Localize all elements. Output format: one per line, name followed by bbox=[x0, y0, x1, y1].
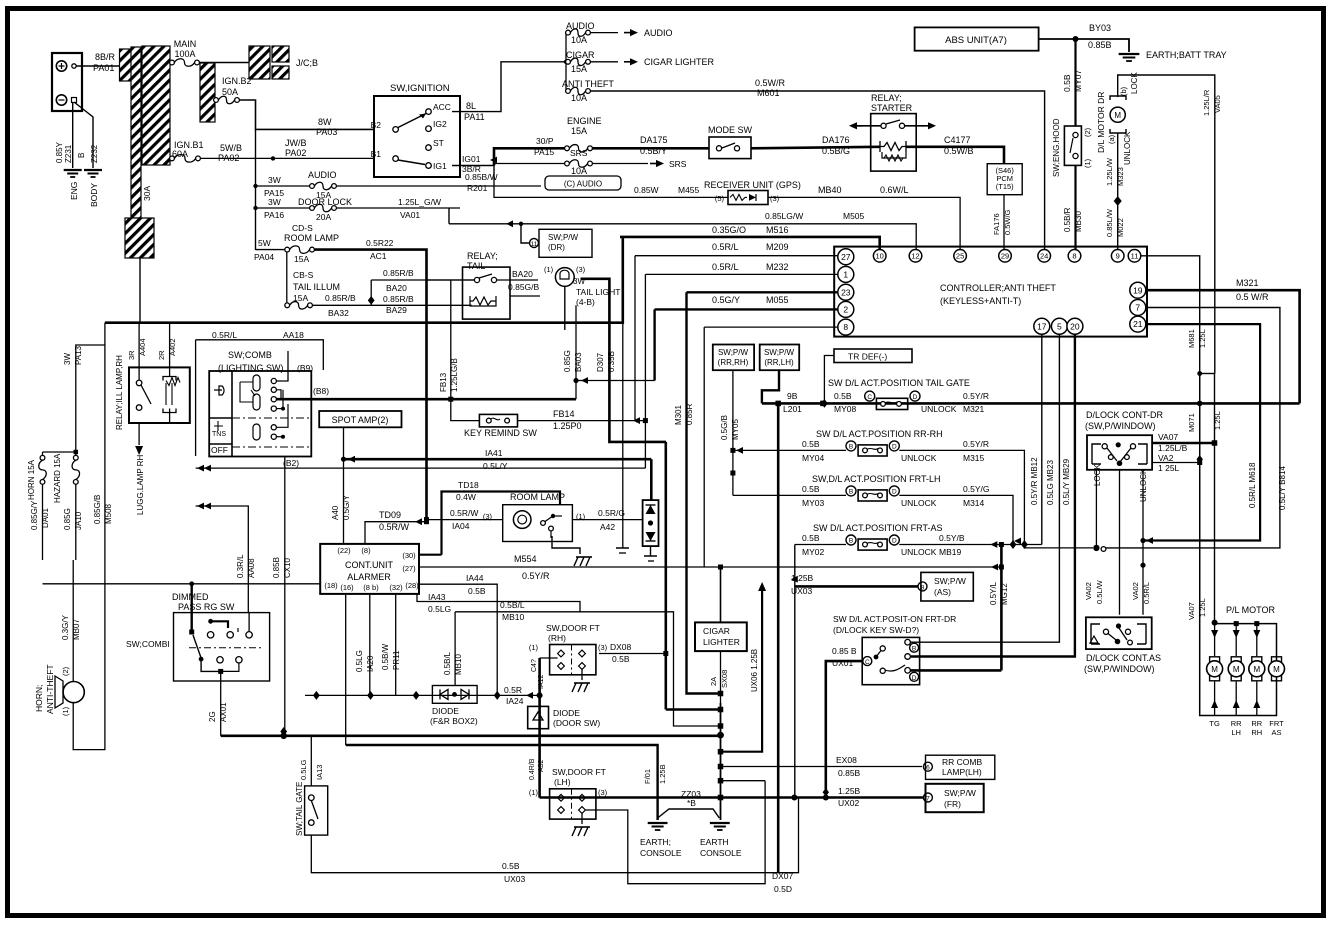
heavy row B8 to BA03 bbox=[276, 398, 576, 401]
svg-text:IA13: IA13 bbox=[315, 765, 324, 780]
svg-text:TR DEF(-): TR DEF(-) bbox=[848, 352, 887, 362]
wire ACC 8L PA11 bbox=[452, 62, 566, 112]
svg-text:SX08: SX08 bbox=[720, 670, 729, 688]
svg-text:RR: RR bbox=[1251, 719, 1262, 728]
svg-text:10: 10 bbox=[876, 252, 884, 261]
switch lighting SW inner box bbox=[209, 371, 311, 457]
svg-text:B: B bbox=[849, 443, 853, 450]
svg-text:M455: M455 bbox=[678, 185, 700, 195]
svg-text:SW;P/W: SW;P/W bbox=[934, 576, 966, 586]
svg-text:(SW,P/WINDOW): (SW,P/WINDOW) bbox=[1085, 421, 1156, 431]
svg-text:CB-S: CB-S bbox=[293, 270, 314, 280]
wire IG1 row to ENGINE fuse bbox=[494, 148, 565, 165]
switch SW;ENG.HOOD bbox=[1064, 126, 1081, 165]
wire BY03 0.85B bbox=[1039, 38, 1076, 40]
svg-text:BY03: BY03 bbox=[1089, 23, 1111, 33]
svg-text:RELAY;: RELAY; bbox=[871, 93, 902, 103]
svg-text:(RR,LH): (RR,LH) bbox=[764, 358, 794, 367]
svg-text:MY08: MY08 bbox=[834, 404, 856, 414]
svg-text:DIODE: DIODE bbox=[432, 706, 459, 716]
svg-text:BA20: BA20 bbox=[386, 283, 407, 293]
svg-text:24: 24 bbox=[1040, 252, 1048, 261]
svg-text:0.85B: 0.85B bbox=[1088, 40, 1112, 50]
svg-text:(3): (3) bbox=[770, 194, 780, 203]
box D/LOCK CONT-AS bbox=[1086, 617, 1152, 649]
svg-text:1: 1 bbox=[843, 269, 848, 279]
svg-text:(DOOR SW): (DOOR SW) bbox=[553, 718, 600, 728]
svg-text:3W: 3W bbox=[63, 353, 72, 365]
svg-text:LUGG.LAMP RH: LUGG.LAMP RH bbox=[136, 454, 145, 515]
svg-text:(8): (8) bbox=[361, 546, 371, 555]
svg-text:VA07: VA07 bbox=[1187, 602, 1196, 620]
svg-text:C4177: C4177 bbox=[944, 135, 971, 145]
box (C)AUDIO bbox=[545, 176, 621, 190]
svg-text:(2): (2) bbox=[61, 666, 70, 676]
wire 0.5B MY07 down to hood switch bbox=[1074, 39, 1076, 126]
svg-text:DX08: DX08 bbox=[610, 642, 632, 652]
svg-text:M323: M323 bbox=[1116, 167, 1125, 186]
earth EARTH CONSOLE2 bbox=[720, 781, 722, 820]
svg-text:ANTI-THEFT: ANTI-THEFT bbox=[45, 664, 55, 714]
svg-text:TAIL: TAIL bbox=[467, 261, 485, 271]
svg-text:M554: M554 bbox=[514, 554, 537, 564]
wire 3R A404 bbox=[138, 323, 140, 380]
svg-text:0.5L/Y MB29: 0.5L/Y MB29 bbox=[1062, 458, 1071, 505]
svg-text:RR COMB: RR COMB bbox=[942, 757, 982, 767]
svg-text:IGN.B2: IGN.B2 bbox=[222, 76, 252, 86]
svg-text:FB14: FB14 bbox=[553, 409, 575, 419]
svg-text:PA02: PA02 bbox=[218, 153, 239, 163]
svg-text:0.5Y/L: 0.5Y/L bbox=[989, 581, 998, 605]
LH door out DX07 bbox=[586, 781, 766, 884]
svg-text:A40: A40 bbox=[331, 505, 340, 520]
arrow to CIGAR LIGHTER bbox=[590, 61, 618, 63]
bundle junctions bbox=[666, 708, 719, 711]
svg-text:JA10: JA10 bbox=[74, 511, 83, 530]
svg-text:15A: 15A bbox=[571, 126, 587, 136]
wire 0.85G/Y DA01 bbox=[42, 484, 44, 560]
box PCM (S46)(T15) bbox=[987, 164, 1022, 195]
svg-text:FB13: FB13 bbox=[439, 372, 448, 392]
svg-text:LH: LH bbox=[1231, 728, 1241, 737]
svg-text:25: 25 bbox=[956, 252, 964, 261]
svg-text:19: 19 bbox=[1133, 285, 1143, 295]
svg-text:0.35B: 0.35B bbox=[607, 351, 616, 372]
svg-text:(1): (1) bbox=[61, 706, 70, 716]
controller top pins bbox=[873, 250, 886, 263]
svg-text:M232: M232 bbox=[766, 262, 789, 272]
svg-text:SW,D/L ACT.POSITION FRT-LH: SW,D/L ACT.POSITION FRT-LH bbox=[812, 474, 941, 484]
svg-text:0.5R/W: 0.5R/W bbox=[450, 508, 478, 518]
relay coil + resistor bbox=[880, 141, 906, 152]
svg-text:SRS: SRS bbox=[570, 148, 588, 158]
svg-text:M505: M505 bbox=[843, 211, 865, 221]
svg-text:0.4R/B: 0.4R/B bbox=[529, 758, 536, 780]
svg-text:0.5B: 0.5B bbox=[834, 391, 852, 401]
svg-text:M: M bbox=[1233, 665, 1240, 674]
svg-text:MB10: MB10 bbox=[502, 612, 524, 622]
svg-text:0.5W/G: 0.5W/G bbox=[1003, 209, 1012, 235]
wire FA176 to pin 29 bbox=[1003, 195, 1005, 250]
svg-text:RELAY;ILL LAMP,RH: RELAY;ILL LAMP,RH bbox=[115, 355, 124, 430]
wire FRT-DR D out heavy bbox=[910, 669, 1001, 672]
wire 0.5W/R M601 to pin 24 bbox=[590, 91, 1045, 250]
svg-text:RR: RR bbox=[1231, 719, 1242, 728]
svg-text:(1): (1) bbox=[529, 643, 539, 652]
svg-text:M516: M516 bbox=[766, 225, 789, 235]
diode block A42 bbox=[643, 500, 659, 546]
svg-text:RECEIVER UNIT (GPS): RECEIVER UNIT (GPS) bbox=[704, 180, 801, 190]
svg-text:PA11: PA11 bbox=[464, 112, 485, 122]
svg-text:0.5B: 0.5B bbox=[612, 654, 630, 664]
switch SW;TAIL GATE bbox=[310, 736, 312, 786]
wire to pin 8 left bbox=[704, 326, 838, 328]
svg-text:ENG: ENG bbox=[69, 182, 79, 200]
svg-text:TG: TG bbox=[1209, 719, 1220, 728]
svg-text:8B/R: 8B/R bbox=[95, 52, 116, 62]
svg-text:VA2: VA2 bbox=[1158, 453, 1174, 463]
svg-text:SW D/L ACT.POSIT-ON FRT-DR: SW D/L ACT.POSIT-ON FRT-DR bbox=[833, 614, 956, 624]
svg-text:J/C;B: J/C;B bbox=[296, 58, 318, 68]
svg-text:0.5R/L: 0.5R/L bbox=[212, 330, 237, 340]
svg-text:UX02: UX02 bbox=[838, 798, 860, 808]
wire MB54 junction x1001 bbox=[1000, 545, 1003, 671]
svg-text:0.5LG MB23: 0.5LG MB23 bbox=[1046, 460, 1055, 505]
svg-text:(1): (1) bbox=[1083, 158, 1092, 168]
junction block J/C;B hatched bbox=[249, 46, 270, 79]
svg-text:5W/B: 5W/B bbox=[220, 143, 242, 153]
svg-text:IG2: IG2 bbox=[433, 119, 447, 129]
svg-text:(RR,RH): (RR,RH) bbox=[718, 358, 749, 367]
wire 0.5B UX03 bottom row bbox=[311, 798, 798, 873]
wire 0.5R/W IA04 bbox=[427, 519, 503, 521]
svg-text:SW D/L ACT.POSITION TAIL GATE: SW D/L ACT.POSITION TAIL GATE bbox=[828, 378, 970, 388]
svg-text:CD-S: CD-S bbox=[292, 223, 313, 233]
svg-text:SW,DOOR FT: SW,DOOR FT bbox=[546, 623, 600, 633]
wire cigar down bbox=[720, 651, 722, 703]
svg-text:CIGAR: CIGAR bbox=[703, 626, 730, 636]
svg-text:B: B bbox=[912, 646, 916, 653]
svg-text:M321: M321 bbox=[963, 404, 985, 414]
svg-text:MG12: MG12 bbox=[1000, 583, 1009, 605]
svg-text:(LH): (LH) bbox=[554, 777, 571, 787]
svg-text:5: 5 bbox=[1057, 321, 1062, 331]
wire RR-RH row bbox=[733, 449, 846, 451]
svg-text:23: 23 bbox=[841, 287, 851, 297]
svg-text:M601: M601 bbox=[757, 88, 780, 98]
svg-text:UNLOCK: UNLOCK bbox=[901, 547, 937, 557]
svg-text:0.5B/G: 0.5B/G bbox=[822, 146, 850, 156]
svg-text:0.5B/W: 0.5B/W bbox=[381, 643, 390, 670]
battery bbox=[52, 53, 82, 111]
diode row y695 bbox=[305, 694, 540, 696]
svg-text:SW,DOOR FT: SW,DOOR FT bbox=[552, 767, 606, 777]
svg-text:0.5R/L: 0.5R/L bbox=[712, 242, 739, 252]
svg-text:HORN 15A: HORN 15A bbox=[27, 459, 36, 500]
svg-text:0.5L/Y: 0.5L/Y bbox=[483, 461, 508, 471]
junction diamond BA20/BA29 bbox=[368, 296, 375, 305]
svg-text:MY07: MY07 bbox=[1073, 70, 1083, 92]
svg-text:EARTH: EARTH bbox=[700, 837, 729, 847]
svg-text:IA41: IA41 bbox=[485, 448, 503, 458]
room lamp ground bbox=[552, 536, 580, 554]
svg-text:UX01: UX01 bbox=[832, 658, 854, 668]
svg-text:0.3R/L: 0.3R/L bbox=[236, 554, 245, 578]
wire 1.25L/W M323 bbox=[1117, 133, 1119, 200]
svg-text:AUDIO: AUDIO bbox=[566, 21, 595, 31]
wire battery- to earths bbox=[74, 102, 93, 168]
svg-text:FRT: FRT bbox=[1269, 719, 1284, 728]
svg-text:D/LOCK CONT.AS: D/LOCK CONT.AS bbox=[1086, 653, 1161, 663]
wire BA03 0.85G vertical bbox=[564, 286, 566, 330]
svg-text:D: D bbox=[892, 488, 897, 495]
wire 3W PA13 vertical bbox=[76, 345, 105, 455]
box CONT.UNIT ALARMER bbox=[320, 544, 419, 594]
wire pin21 0.5R/L M618 bbox=[1144, 324, 1260, 540]
svg-text:20: 20 bbox=[1070, 321, 1080, 331]
svg-text:AS: AS bbox=[1271, 728, 1281, 737]
wire BA20 0.85G/B to tail light bbox=[496, 279, 538, 281]
svg-text:0.5Y/G: 0.5Y/G bbox=[963, 484, 989, 494]
box SPOT AMP bbox=[319, 411, 401, 427]
svg-text:15A: 15A bbox=[294, 254, 309, 264]
verticals from DR box bbox=[1095, 470, 1097, 548]
svg-text:D: D bbox=[892, 538, 897, 545]
wire lock loop 1.25L/R VA05 bbox=[1118, 75, 1215, 374]
motor RR RH bbox=[1256, 624, 1258, 656]
svg-text:PA13: PA13 bbox=[74, 345, 83, 365]
svg-text:FA176: FA176 bbox=[992, 213, 1001, 235]
row IA24 thin bbox=[196, 467, 646, 469]
svg-text:AC1: AC1 bbox=[370, 251, 387, 261]
svg-text:LOCK: LOCK bbox=[1093, 464, 1102, 486]
svg-text:9: 9 bbox=[1116, 252, 1120, 261]
svg-text:ANTI THEFT: ANTI THEFT bbox=[562, 79, 614, 89]
svg-text:(F&R BOX2): (F&R BOX2) bbox=[430, 716, 478, 726]
svg-text:SRS: SRS bbox=[669, 159, 687, 169]
svg-text:0.85G/B: 0.85G/B bbox=[508, 282, 540, 292]
wire 0.85R/B BA32 row bbox=[312, 304, 472, 306]
svg-text:UNLOCK: UNLOCK bbox=[1123, 131, 1132, 165]
svg-text:D: D bbox=[912, 675, 917, 682]
wire IA43 0.5LG bbox=[417, 594, 580, 612]
wire FRT-LH row bbox=[733, 494, 846, 496]
svg-text:0.85B: 0.85B bbox=[272, 557, 281, 578]
heavy vertical doors x539.6 bbox=[538, 658, 541, 798]
svg-text:(30): (30) bbox=[402, 551, 416, 560]
svg-text:AX01: AX01 bbox=[219, 702, 228, 722]
svg-text:2G: 2G bbox=[208, 711, 217, 722]
box RR COMB LAMP(LH) bbox=[923, 762, 932, 771]
fuse HORN 15A bbox=[40, 455, 45, 460]
svg-text:(a): (a) bbox=[1107, 134, 1116, 144]
svg-text:ROOM LAMP: ROOM LAMP bbox=[284, 233, 339, 243]
svg-text:(16): (16) bbox=[340, 583, 354, 592]
lighting sw contacts bbox=[271, 378, 276, 383]
svg-text:SW;COMB: SW;COMB bbox=[228, 350, 272, 360]
wire 0.85L/W M022 to pin 9 bbox=[1117, 205, 1119, 250]
svg-text:D: D bbox=[913, 394, 918, 401]
LH door ground bbox=[581, 814, 583, 825]
svg-text:0.5LG: 0.5LG bbox=[299, 759, 308, 780]
svg-text:0.35G/O: 0.35G/O bbox=[712, 225, 746, 235]
svg-text:3W: 3W bbox=[268, 175, 281, 185]
svg-text:0.5Y/R: 0.5Y/R bbox=[963, 439, 989, 449]
svg-text:MAIN: MAIN bbox=[174, 39, 197, 49]
svg-text:UNLOCK: UNLOCK bbox=[921, 404, 957, 414]
svg-text:Z232: Z232 bbox=[90, 144, 99, 163]
wire D307 0.35B heavy from tail lamp bbox=[581, 279, 667, 442]
motor FRT AS bbox=[1272, 657, 1282, 662]
svg-text:VA01: VA01 bbox=[400, 210, 420, 220]
svg-text:0.5R: 0.5R bbox=[504, 685, 522, 695]
boxes SW;P/W RR bbox=[713, 345, 754, 371]
box SW;P/W (DR) bbox=[539, 229, 592, 257]
svg-text:M: M bbox=[1273, 665, 1280, 674]
svg-text:M022: M022 bbox=[1116, 218, 1125, 237]
svg-text:0.5G/B: 0.5G/B bbox=[720, 415, 729, 440]
svg-text:EARTH;BATT TRAY: EARTH;BATT TRAY bbox=[1146, 50, 1227, 60]
svg-text:0.5B: 0.5B bbox=[1062, 74, 1072, 92]
svg-text:CONSOLE: CONSOLE bbox=[700, 848, 742, 858]
diode DOOR SW bbox=[528, 706, 549, 728]
wire DA175 to MODE SW bbox=[592, 147, 709, 150]
svg-text:BODY: BODY bbox=[89, 183, 99, 207]
svg-text:100A: 100A bbox=[174, 49, 195, 59]
svg-text:8: 8 bbox=[1072, 252, 1076, 261]
svg-text:M055: M055 bbox=[766, 295, 789, 305]
svg-text:VA02: VA02 bbox=[1084, 582, 1093, 600]
svg-text:UX03: UX03 bbox=[504, 874, 526, 884]
svg-text:0.85W: 0.85W bbox=[634, 185, 659, 195]
switch KEY REMIND SW bbox=[479, 414, 517, 427]
svg-text:0.5Y/R MB12: 0.5Y/R MB12 bbox=[1030, 457, 1039, 505]
svg-text:1.25L/R: 1.25L/R bbox=[1202, 89, 1211, 116]
wire 2R A402 bbox=[169, 323, 171, 377]
svg-text:ACC: ACC bbox=[433, 102, 451, 112]
bus bar bottom block bbox=[125, 218, 154, 258]
svg-text:(T15): (T15) bbox=[996, 182, 1014, 191]
svg-text:0.85G: 0.85G bbox=[63, 508, 72, 530]
svg-text:MB07: MB07 bbox=[72, 619, 81, 640]
svg-text:7: 7 bbox=[926, 796, 930, 803]
svg-text:DA01: DA01 bbox=[41, 507, 50, 528]
svg-text:(KEYLESS+ANTI-T): (KEYLESS+ANTI-T) bbox=[940, 296, 1021, 306]
wire FB13 to key remind bbox=[451, 280, 480, 421]
svg-text:MY02: MY02 bbox=[802, 547, 824, 557]
svg-text:M: M bbox=[1114, 111, 1121, 120]
wire from RR,LH box bbox=[762, 370, 779, 403]
svg-text:*B: *B bbox=[687, 798, 696, 808]
UX06 wire with up arrow bbox=[758, 582, 766, 591]
wire 0.85R/B BA20 row bbox=[371, 279, 476, 281]
wire pin7 0.5L/Y B814 bbox=[1103, 308, 1280, 548]
svg-text:ROOM LAMP: ROOM LAMP bbox=[510, 492, 565, 502]
svg-text:SW,IGNITION: SW,IGNITION bbox=[390, 83, 450, 94]
wire 0.5R/L M232 to pin 1 bbox=[645, 273, 837, 275]
svg-text:0.5LG: 0.5LG bbox=[355, 650, 364, 672]
wire to ignition B2 bbox=[239, 100, 374, 129]
svg-text:CONSOLE: CONSOLE bbox=[640, 848, 682, 858]
wire 0.85B UX01 bbox=[826, 661, 862, 797]
svg-text:LIGHTER: LIGHTER bbox=[703, 637, 740, 647]
svg-text:(4-B): (4-B) bbox=[576, 297, 595, 307]
svg-text:(3): (3) bbox=[598, 788, 608, 797]
svg-text:PA01: PA01 bbox=[93, 63, 114, 73]
svg-text:0.5D: 0.5D bbox=[774, 884, 792, 894]
svg-text:5W: 5W bbox=[258, 238, 271, 248]
wire 0.5R22 AC1 heavy vertical bbox=[314, 250, 427, 521]
arrow to AUDIO bbox=[590, 32, 618, 34]
bus bar vertical bbox=[131, 47, 141, 218]
svg-text:OFF: OFF bbox=[211, 445, 228, 455]
wire VA2 1.25L bbox=[1152, 462, 1200, 464]
svg-text:SW D/L ACT.POSITION RR-RH: SW D/L ACT.POSITION RR-RH bbox=[816, 429, 943, 439]
svg-text:ALARMER: ALARMER bbox=[347, 572, 391, 582]
svg-text:M508: M508 bbox=[104, 503, 113, 524]
vertical feed to fuses bbox=[565, 33, 567, 91]
wire 0.5R/G A42 to diode bbox=[572, 519, 643, 521]
svg-text:(32): (32) bbox=[389, 583, 403, 592]
svg-text:6: 6 bbox=[926, 765, 930, 772]
svg-text:UX06 1.25B: UX06 1.25B bbox=[750, 649, 759, 692]
svg-text:M315: M315 bbox=[963, 453, 985, 463]
wire pin19 M321 0.5W/R bbox=[1146, 290, 1300, 403]
svg-text:0.85G: 0.85G bbox=[563, 350, 572, 372]
svg-text:DIMMED: DIMMED bbox=[172, 592, 209, 602]
row y520 TD09 bbox=[365, 522, 427, 544]
svg-text:SW;P/W: SW;P/W bbox=[944, 788, 976, 798]
svg-text:0.5B: 0.5B bbox=[502, 861, 520, 871]
svg-text:SW D/L ACT.POSITION FRT-AS: SW D/L ACT.POSITION FRT-AS bbox=[813, 523, 943, 533]
box CONTROLLER;ANTI THEFT bbox=[834, 247, 1147, 337]
svg-text:SW;COMBI: SW;COMBI bbox=[126, 639, 170, 649]
wire 5W PA04 room lamp feed bbox=[255, 129, 257, 250]
svg-text:SW;TAIL GATE: SW;TAIL GATE bbox=[295, 782, 304, 836]
svg-text:0.85R: 0.85R bbox=[685, 403, 694, 425]
svg-text:3W: 3W bbox=[268, 197, 281, 207]
svg-text:(AS): (AS) bbox=[934, 587, 951, 597]
svg-text:0.5B/R: 0.5B/R bbox=[1063, 207, 1072, 232]
wire 0.5B/L MB10 bbox=[455, 612, 719, 726]
svg-text:SW;P/W: SW;P/W bbox=[718, 348, 749, 357]
svg-text:(1): (1) bbox=[529, 788, 539, 797]
svg-text:2: 2 bbox=[843, 304, 848, 314]
wire DX08 0.5B + ground bbox=[599, 653, 666, 655]
svg-text:0.5R/W: 0.5R/W bbox=[379, 522, 410, 532]
horn ground U bbox=[73, 560, 105, 750]
svg-text:SW;P/W: SW;P/W bbox=[548, 233, 579, 242]
svg-text:D307: D307 bbox=[596, 352, 605, 372]
svg-text:0.85B: 0.85B bbox=[838, 768, 861, 778]
row to pin2 vertical bbox=[576, 380, 655, 382]
wire FRT-AS row bbox=[795, 544, 846, 546]
svg-text:(RH): (RH) bbox=[548, 633, 566, 643]
controller left pins bbox=[838, 249, 854, 265]
motor RR LH bbox=[1235, 624, 1237, 656]
svg-text:AA18: AA18 bbox=[283, 330, 304, 340]
svg-text:RH: RH bbox=[1251, 728, 1262, 737]
wire IG1 out bbox=[452, 165, 494, 167]
wire 1.25L G/W VA01 bbox=[336, 207, 460, 209]
svg-text:M071: M071 bbox=[1187, 413, 1196, 432]
svg-text:DA175: DA175 bbox=[640, 135, 668, 145]
svg-text:1 25L: 1 25L bbox=[1158, 463, 1180, 473]
svg-text:(DR): (DR) bbox=[548, 243, 565, 252]
dash-dot separators bbox=[232, 417, 311, 419]
svg-text:M301: M301 bbox=[674, 404, 683, 425]
svg-text:A402: A402 bbox=[168, 338, 177, 356]
